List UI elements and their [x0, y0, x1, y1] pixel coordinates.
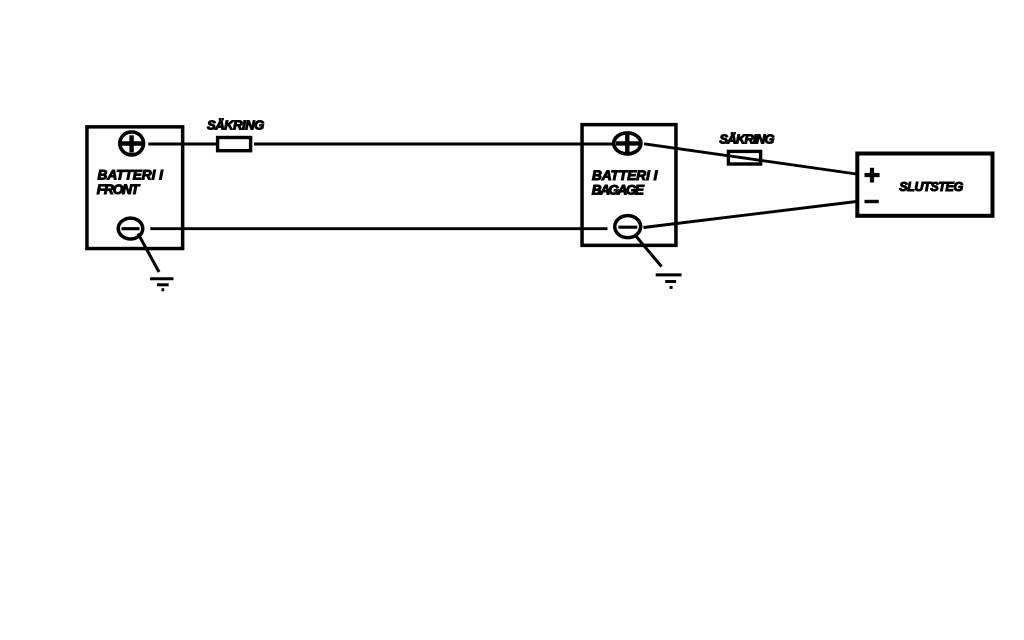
svg-text:BAGAGE: BAGAGE	[592, 183, 645, 198]
wire B1- to B2-	[150, 227, 607, 230]
battery B2 positive terminal	[614, 133, 641, 154]
svg-text:SÄKRING: SÄKRING	[207, 118, 264, 133]
battery B1 negative terminal	[118, 218, 143, 239]
ground below B1	[138, 234, 174, 290]
wire B1+ to fuse F1	[148, 143, 216, 146]
wire B2- to amplifier -	[644, 202, 857, 228]
battery B1 box (BATTERI I FRONT)	[87, 127, 183, 249]
battery B2 negative terminal	[615, 216, 641, 238]
amplifier U1 box (SLUTSTEG)	[857, 154, 992, 216]
svg-text:SÄKRING: SÄKRING	[719, 131, 774, 146]
fuse F2	[728, 151, 760, 164]
amplifier plus input mark	[865, 168, 880, 183]
wire B2+ to amplifier + (through fuse F2)	[644, 144, 857, 174]
svg-text:SLUTSTEG: SLUTSTEG	[899, 180, 963, 194]
battery B1 label	[97, 167, 164, 197]
wire fuse F1 to B2+	[254, 143, 613, 146]
ground below B2	[635, 235, 682, 287]
fuse F1	[218, 138, 251, 151]
svg-text:BATTERI I: BATTERI I	[98, 167, 165, 182]
amplifier minus input mark	[865, 200, 879, 203]
svg-text:BATTERI I: BATTERI I	[592, 168, 659, 183]
battery B1 positive terminal	[120, 132, 145, 155]
battery B2 label	[592, 168, 659, 198]
svg-text:FRONT: FRONT	[97, 182, 141, 197]
battery B2 box (BATTERI I BAGAGE)	[582, 125, 676, 246]
